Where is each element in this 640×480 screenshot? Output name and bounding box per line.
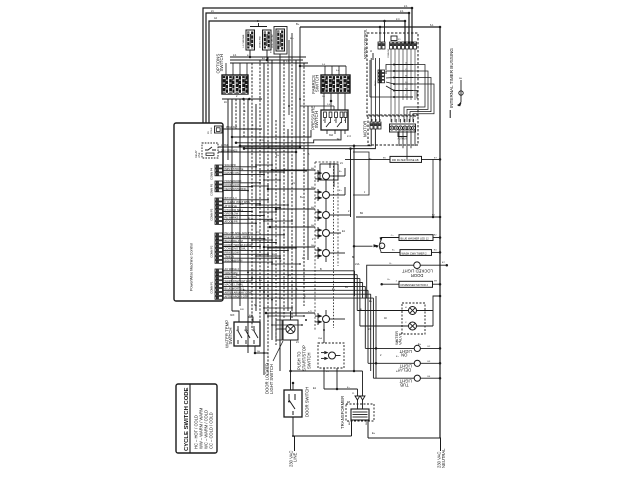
svg-text:21A: 21A xyxy=(318,337,322,340)
wire: pin P3-3 lead xyxy=(223,207,280,209)
svg-text:DRV STROKES: DRV STROKES xyxy=(221,150,238,152)
svg-text:MOTOR CONTROL: MOTOR CONTROL xyxy=(364,29,368,59)
svg-text:4M BDL RNE: 4M BDL RNE xyxy=(260,35,262,48)
svg-text:1-2: 1-2 xyxy=(279,297,283,300)
svg-text:DOOR SWITCH: DOOR SWITCH xyxy=(305,387,310,417)
svg-text:AT DOYLE: AT DOYLE xyxy=(225,204,238,208)
lamp: delay light xyxy=(414,360,420,366)
wire: control-to-motor links left xyxy=(370,58,372,122)
svg-text:B+: B+ xyxy=(236,274,240,277)
svg-text:CONN P3: CONN P3 xyxy=(210,208,214,220)
wire: pin P1-7 lead xyxy=(223,293,371,295)
connector: motor 6-pin xyxy=(390,124,416,132)
switch: timer cam contact 6 xyxy=(323,316,330,323)
lamp: door locked light xyxy=(414,262,421,269)
wire: label leader xyxy=(273,341,283,361)
valve assembly: water valve (dashed) xyxy=(402,303,425,334)
wire: pin P3-5 lead xyxy=(223,214,264,216)
wire: lead to wash timer box xyxy=(381,251,400,254)
wire: door switch top lead xyxy=(292,383,294,390)
relay K1 (line relay) xyxy=(202,143,218,158)
svg-text:DELAY: DELAY xyxy=(397,368,411,373)
wire: pin P5-1 lead xyxy=(223,182,260,184)
svg-text:PLEASE APRL WKS 1: PLEASE APRL WKS 1 xyxy=(225,235,251,239)
svg-text:MACHE LOWAL: MACHE LOWAL xyxy=(225,283,244,287)
machine control board (PowerWise Machine Control) xyxy=(174,123,223,301)
component: fuse F1 xyxy=(391,36,397,41)
svg-text:RFI FILTER NOISE AB: RFI FILTER NOISE AB xyxy=(392,158,419,162)
svg-text:21A: 21A xyxy=(355,263,360,266)
wire group: harness cross links xyxy=(256,164,272,166)
svg-text:PowerWise Machine Control: PowerWise Machine Control xyxy=(190,243,194,291)
wire: RFI to aux bus link xyxy=(432,159,434,217)
connector CONN P1 xyxy=(215,269,223,272)
connector CONN P2 xyxy=(215,233,223,236)
component T3 (buzzer selector) xyxy=(274,27,287,55)
wire: pin P1-5 lead xyxy=(223,285,365,287)
svg-text:CONN P1: CONN P1 xyxy=(210,281,214,293)
svg-text:ATOON PR: ATOON PR xyxy=(225,220,238,224)
switch: first cam solid box xyxy=(320,164,338,180)
svg-text:VALVE: VALVE xyxy=(398,332,403,345)
wire: pin P1-1 lead xyxy=(223,270,355,272)
symbol: bussing pointer xyxy=(458,80,461,106)
motor control module (dashed) xyxy=(367,33,418,116)
svg-text:SWITCH: SWITCH xyxy=(219,54,224,71)
wire: lead to washer led box xyxy=(381,238,399,241)
svg-text:2-4: 2-4 xyxy=(347,135,351,138)
component: wash timer box xyxy=(400,250,432,256)
svg-text:LINE: LINE xyxy=(293,452,298,462)
wire: pin P5-3 lead xyxy=(223,190,248,192)
switch S3 (pressure switch) body xyxy=(321,110,348,130)
wire: motor right leads down xyxy=(399,129,415,159)
component T2 (selector segment) xyxy=(263,30,272,50)
wire: pin P2-5 lead xyxy=(223,249,288,251)
wire: staircase drop 8 xyxy=(372,298,374,378)
lamp: tub light xyxy=(414,375,420,381)
wire: pin P3-2 lead xyxy=(223,203,260,205)
wire: pin P3-7 lead xyxy=(223,222,256,224)
switch S2 (fabrics switch) body xyxy=(321,75,350,93)
legend: cycle switch code xyxy=(176,384,217,453)
wire: pin P5-2 lead xyxy=(223,186,252,188)
svg-text:LOCKED LIGHT: LOCKED LIGHT xyxy=(402,269,433,274)
lamp: on light xyxy=(414,345,420,351)
wire: options switch bottom bus xyxy=(222,98,262,100)
svg-text:TRANSFORMER: TRANSFORMER xyxy=(340,396,345,429)
svg-text:D: D xyxy=(369,50,373,52)
wire: bracket over T1 T2 xyxy=(250,23,267,27)
svg-text:E+: E+ xyxy=(332,288,336,291)
connector: motor control 2-pin xyxy=(378,42,381,49)
svg-text:2A: 2A xyxy=(224,101,227,104)
svg-text:CONN P2: CONN P2 xyxy=(210,245,214,257)
wire: motor control left loop xyxy=(370,60,394,97)
svg-text:E+: E+ xyxy=(372,432,376,435)
svg-text:CONN M2: CONN M2 xyxy=(388,48,390,58)
svg-text:CONN P4: CONN P4 xyxy=(210,167,214,179)
svg-text:CYCLE SWITCH CODE: CYCLE SWITCH CODE xyxy=(184,387,190,451)
svg-text:2-4: 2-4 xyxy=(256,231,260,234)
svg-text:2-1: 2-1 xyxy=(260,139,264,142)
wire: selector leads down xyxy=(249,50,251,57)
connector: inner header xyxy=(378,70,385,73)
switch: timer cam contact 2 xyxy=(323,192,330,199)
wire: transformer primary xyxy=(357,400,359,409)
wire: staircase drop 1 xyxy=(354,271,356,296)
wire: right long bus to neutral side xyxy=(300,27,440,438)
svg-text:30X: 30X xyxy=(230,314,235,317)
svg-text:DISPENSER MOTOR 2: DISPENSER MOTOR 2 xyxy=(401,283,429,287)
wire: outer bus line 3 xyxy=(209,21,405,123)
svg-text:LINE: LINE xyxy=(198,152,201,158)
component T1 (selector segment) xyxy=(246,30,255,50)
wire: pin P2-2 lead xyxy=(223,238,264,240)
wire: dispenser leads xyxy=(382,283,399,285)
wire: pin P2-3 lead xyxy=(223,242,276,244)
wire: pin P2-4 lead xyxy=(223,246,260,248)
wire: cam common dashed bus xyxy=(333,166,335,328)
svg-text:B+: B+ xyxy=(296,22,300,26)
wire: routing loop J xyxy=(353,152,369,195)
svg-text:HOUSEWORK: HOUSEWORK xyxy=(225,179,242,183)
wire: cam chain vertical links xyxy=(325,179,327,192)
wire group: motor control rungs xyxy=(394,64,413,66)
svg-text:CONN P5: CONN P5 xyxy=(210,183,214,195)
wire: transformer secondary to neutral xyxy=(352,420,441,451)
svg-text:NEON SINTERING: NEON SINTERING xyxy=(225,187,247,191)
wire: staircase drop 2 xyxy=(356,275,358,311)
transformer TR1 (dashed) xyxy=(346,404,374,421)
connector CONN P3 xyxy=(215,198,223,201)
wire: pin P3-6 lead xyxy=(223,218,272,220)
connector CONN P4 xyxy=(215,165,223,168)
label: motor pin marks xyxy=(391,119,393,123)
wire: RFI filter line xyxy=(345,158,440,160)
wire: pin P4-3 lead xyxy=(223,174,264,176)
wire: line drop to 230VAC xyxy=(293,417,352,451)
svg-text:40R: 40R xyxy=(249,315,253,317)
svg-text:MOTOR: MOTOR xyxy=(362,121,367,137)
wire: pressure bottom leads xyxy=(232,130,311,137)
svg-text:ON: ON xyxy=(401,353,407,358)
component: RFI filter box xyxy=(390,156,422,162)
wire: pressure top lead xyxy=(333,106,335,110)
wire: outer bus line 1 xyxy=(203,8,412,123)
wire: pin P1-6 lead xyxy=(223,289,368,291)
svg-text:E+: E+ xyxy=(259,279,263,282)
wire: push start leads xyxy=(323,322,325,343)
svg-text:WASH CWA TIMER 2: WASH CWA TIMER 2 xyxy=(402,251,428,255)
wire: pin P3-4 lead xyxy=(223,211,252,213)
svg-text:S~: S~ xyxy=(254,304,258,307)
svg-text:1-2: 1-2 xyxy=(240,203,244,206)
svg-text:BLUE WORT 1-2: BLUE WORT 1-2 xyxy=(225,287,245,291)
switch: timer cam contact 1 xyxy=(323,173,330,180)
svg-text:E+: E+ xyxy=(369,300,373,303)
svg-text:AFTRL ARGHY OTR: AFTRL ARGHY OTR xyxy=(225,294,249,298)
wire: pin P2-6 lead xyxy=(223,253,268,255)
wire: pin P2-7 lead xyxy=(223,257,280,259)
wire: staircase drop 3 xyxy=(359,279,361,326)
wire: outer bus line 2 xyxy=(206,13,409,123)
svg-text:CONN: CONN xyxy=(211,127,213,134)
wire: valve leads xyxy=(357,310,408,312)
svg-text:B+: B+ xyxy=(369,158,373,161)
node: harness junctions xyxy=(247,271,249,273)
timer switch chain (dashed outline) xyxy=(315,162,338,330)
wire: water temp top leads xyxy=(232,311,239,322)
svg-text:SWITCH: SWITCH xyxy=(307,352,312,369)
wire group: upper harness horizontals xyxy=(230,56,306,58)
switch: timer cam contact 4 xyxy=(323,230,330,237)
svg-text:SOLN PR: SOLN PR xyxy=(225,163,236,167)
wire: door locked switch leads xyxy=(290,311,292,320)
svg-text:WW: WW xyxy=(244,330,248,332)
wire: cam left feeds xyxy=(272,169,315,171)
wire: pin P3-1 lead xyxy=(223,199,268,201)
wire: main vertical feed xyxy=(353,146,355,371)
label: motor aux bracket xyxy=(398,132,407,137)
wire: 2-pin up links xyxy=(379,27,381,42)
wire: lamp feeder xyxy=(375,296,377,378)
component: dispenser motor box xyxy=(399,281,433,287)
valve: cold water solenoid xyxy=(409,322,417,330)
wire group: motor wrap-around links xyxy=(404,65,425,123)
svg-text:F CLEAN VOGT WKS: F CLEAN VOGT WKS xyxy=(225,200,250,204)
connector: motor 3-pin xyxy=(370,122,373,129)
wire: fabrics bottom leads xyxy=(323,93,325,110)
wire: feeder bus lower xyxy=(244,129,375,149)
svg-text:NEUTRAL: NEUTRAL xyxy=(441,448,446,468)
switch: timer cam contact 3 xyxy=(323,212,330,219)
switch S6 (push to start/stop switch) xyxy=(318,343,344,368)
svg-text:E+: E+ xyxy=(276,154,280,157)
wire: pin P1-3 lead xyxy=(223,278,360,280)
wire: motor control internal routing xyxy=(386,65,394,91)
svg-text:E+: E+ xyxy=(418,343,422,346)
svg-text:2-1: 2-1 xyxy=(232,260,236,263)
connector CONN P6 xyxy=(215,126,223,133)
svg-text:PE LITH APRL ACUITY: PE LITH APRL ACUITY xyxy=(225,231,252,235)
svg-text:IMPLS STROKE: IMPLS STROKE xyxy=(225,167,244,171)
motor M1 (dashed box) xyxy=(368,115,418,145)
svg-text:DOOR: DOOR xyxy=(411,273,424,278)
wire: door locked light leads xyxy=(367,265,414,298)
svg-text:HIGH SPD SW: HIGH SPD SW xyxy=(272,34,274,48)
svg-text:SWITCH: SWITCH xyxy=(314,111,319,128)
svg-text:CC – COLD / COLD: CC – COLD / COLD xyxy=(209,412,214,449)
svg-text:WC: WC xyxy=(252,330,256,332)
symbol: junction connector (2) xyxy=(379,243,385,249)
wire: staircase drop 4 xyxy=(362,283,364,299)
svg-text:30A: 30A xyxy=(329,134,334,137)
wire: pin P4-2 lead xyxy=(223,170,306,172)
wire: line relay leads xyxy=(218,146,300,148)
wire: pin P2-8 lead xyxy=(223,261,272,263)
svg-text:LIGHT SWITCH: LIGHT SWITCH xyxy=(269,364,274,394)
wire: aux bus xyxy=(356,216,440,218)
switch S5 (door locked light switch) xyxy=(283,320,298,340)
svg-text:BITCH 4-3: BITCH 4-3 xyxy=(225,196,238,200)
connector: motor control 8-pin xyxy=(390,42,393,49)
svg-text:B+: B+ xyxy=(345,286,349,289)
switch: timer cam contact 5 xyxy=(323,250,330,257)
svg-text:B+: B+ xyxy=(243,289,247,292)
wire: feeder bus upper xyxy=(240,129,371,146)
svg-text:E+: E+ xyxy=(272,253,276,256)
svg-text:B+: B+ xyxy=(300,196,304,199)
svg-text:BLUE WASHER LED 12: BLUE WASHER LED 12 xyxy=(401,236,430,240)
wire: feed to junction xyxy=(354,245,373,247)
wire group: center vertical harness xyxy=(227,99,229,160)
svg-text:1-4 CHEDDAR: 1-4 CHEDDAR xyxy=(242,34,245,48)
svg-text:BLK: BLK xyxy=(349,421,351,425)
wire: pin P2-1 lead xyxy=(223,234,284,236)
wire: water temp bottom lead xyxy=(255,346,268,353)
node: top bus junctions xyxy=(411,7,414,10)
connector CONN P5 xyxy=(215,181,223,184)
valve: hot water solenoid xyxy=(409,307,417,315)
wire: T3 drop xyxy=(288,40,290,115)
symbol: primary arrows xyxy=(355,396,360,400)
wire: pin P1-8 lead xyxy=(223,297,373,299)
svg-text:RELAY: RELAY xyxy=(195,150,198,158)
svg-text:x-TI: x-TI xyxy=(308,311,312,313)
wire: staircase drop 5 xyxy=(364,286,366,348)
svg-text:SWITCH: SWITCH xyxy=(228,328,233,345)
svg-text:TUB: TUB xyxy=(400,383,409,388)
wire: P6 lead xyxy=(222,128,262,130)
svg-text:TANION: TANION xyxy=(225,255,235,259)
wire: staircase drop 6 xyxy=(367,290,369,363)
switch S7 (door switch) xyxy=(284,390,302,417)
wire: pin P1-4 lead xyxy=(223,282,363,284)
svg-text:PE WORKS: PE WORKS xyxy=(225,216,239,220)
svg-text:NT DOOR SELL: NT DOOR SELL xyxy=(225,208,244,212)
svg-text:SWITCH: SWITCH xyxy=(315,75,320,92)
wire: pin P4-1 lead xyxy=(223,166,256,168)
wire: fabrics top leads xyxy=(324,66,326,75)
svg-text:2-1: 2-1 xyxy=(251,269,255,272)
wire group: cam chain links xyxy=(334,175,345,177)
wire: box outputs to bus xyxy=(433,237,440,239)
component: blue washer led box xyxy=(399,235,433,241)
switch S1 (options switch) body xyxy=(222,75,248,94)
svg-text:WHT: WHT xyxy=(366,420,368,425)
wire: options switch top leads xyxy=(225,63,227,75)
svg-text:30X: 30X xyxy=(240,309,244,311)
wire: control-to-motor links right xyxy=(390,49,392,122)
svg-text:INTERNAL TIMER BUSSING: INTERNAL TIMER BUSSING xyxy=(449,48,454,108)
wire: pin P1-2 lead xyxy=(223,274,357,276)
wire: staircase drop 7 xyxy=(370,294,372,371)
svg-text:COWLONG TOWL: COWLONG TOWL xyxy=(225,247,247,251)
